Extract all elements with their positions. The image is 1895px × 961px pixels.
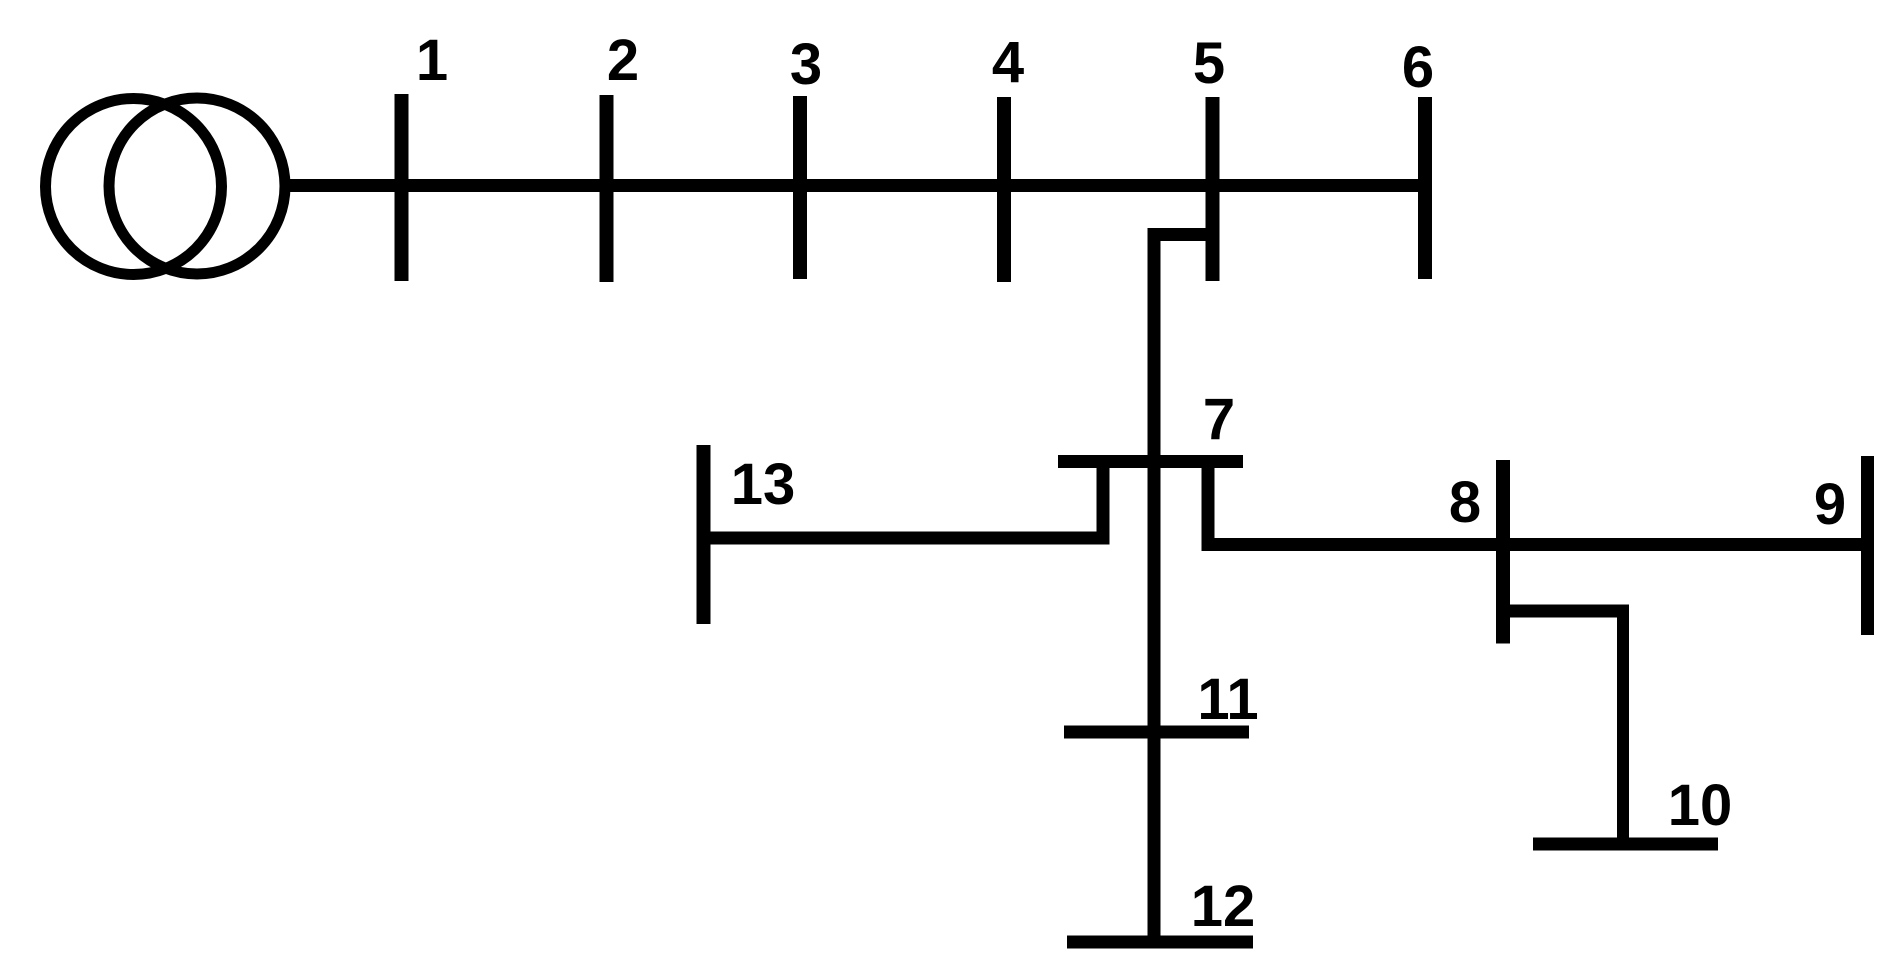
- svg-text:11: 11: [1197, 667, 1258, 732]
- bus 2: [600, 95, 614, 282]
- wire: vertical drop to bus 10: [1617, 611, 1629, 844]
- bus 13: [697, 445, 711, 624]
- svg-text:7: 7: [1203, 387, 1235, 452]
- wire: vertical feeder bus 5 to bus 12: [1148, 228, 1161, 942]
- wire: feeder from transformer to bus 6: [286, 179, 1425, 192]
- svg-text:9: 9: [1814, 472, 1846, 537]
- svg-text:3: 3: [790, 32, 822, 97]
- transformer T1: [46, 98, 286, 275]
- bus 9: [1861, 456, 1874, 635]
- bus 6: [1418, 97, 1432, 279]
- wire: horizontal bus 7 to bus 9 through bus 8: [1202, 538, 1868, 551]
- bus 12: [1067, 936, 1253, 949]
- bus 7: [1058, 455, 1243, 468]
- svg-text:10: 10: [1668, 773, 1733, 838]
- svg-text:8: 8: [1449, 470, 1481, 535]
- bus 1: [395, 94, 409, 281]
- bus 5: [1206, 97, 1220, 281]
- wire: horizontal to bus 13: [703, 532, 1110, 545]
- wire: jog from bus 8: [1503, 605, 1629, 618]
- bus 3: [793, 96, 807, 279]
- bus 8: [1496, 460, 1510, 644]
- svg-text:6: 6: [1402, 35, 1434, 100]
- svg-text:1: 1: [416, 28, 448, 93]
- svg-text:5: 5: [1193, 31, 1225, 96]
- wire: bus 7 drop to bus 13 branch: [1097, 461, 1110, 538]
- svg-text:2: 2: [607, 28, 639, 93]
- bus 10: [1533, 838, 1718, 851]
- wire: bus 7 drop to bus 8 branch: [1202, 461, 1215, 545]
- bus 11: [1064, 726, 1249, 739]
- bus 4: [997, 97, 1011, 282]
- wire: jog from bus 5 to vertical feeder: [1148, 228, 1212, 241]
- svg-text:12: 12: [1191, 874, 1256, 939]
- svg-text:4: 4: [992, 30, 1024, 95]
- svg-text:13: 13: [731, 452, 796, 517]
